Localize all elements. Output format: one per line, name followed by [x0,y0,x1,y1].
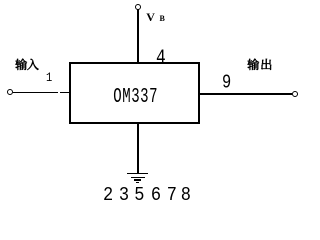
pin labels 2 3 5 6 7 8 (grounded pins) [0,0,1,1]
IC value label OM337 [113,87,158,108]
wire: input terminal to box (pin 1), segment 1 [13,92,58,94]
ground symbol bar 1 [127,173,148,175]
node label: output (Chinese) [247,58,272,71]
terminal: output [292,91,298,97]
net label VB [146,11,165,23]
wire: box (pin 9) to output terminal [200,93,292,95]
pin label 4 [156,48,166,69]
ground symbol bar 2 [131,177,145,179]
terminal: VB supply [135,4,141,10]
node label: input (Chinese) [15,58,39,71]
IC U1 OM337 box [69,62,200,124]
pin label 1 [46,71,52,84]
wire: box bottom to ground [137,124,139,173]
pin label 9 [222,73,231,93]
ground symbol bar 3 [134,179,141,181]
terminal: input [7,89,13,95]
wire: input pin 1 stub segment [60,92,69,94]
ground symbol bar 4 [136,182,139,183]
wire: VB terminal to box top (pin 4) [137,9,139,62]
